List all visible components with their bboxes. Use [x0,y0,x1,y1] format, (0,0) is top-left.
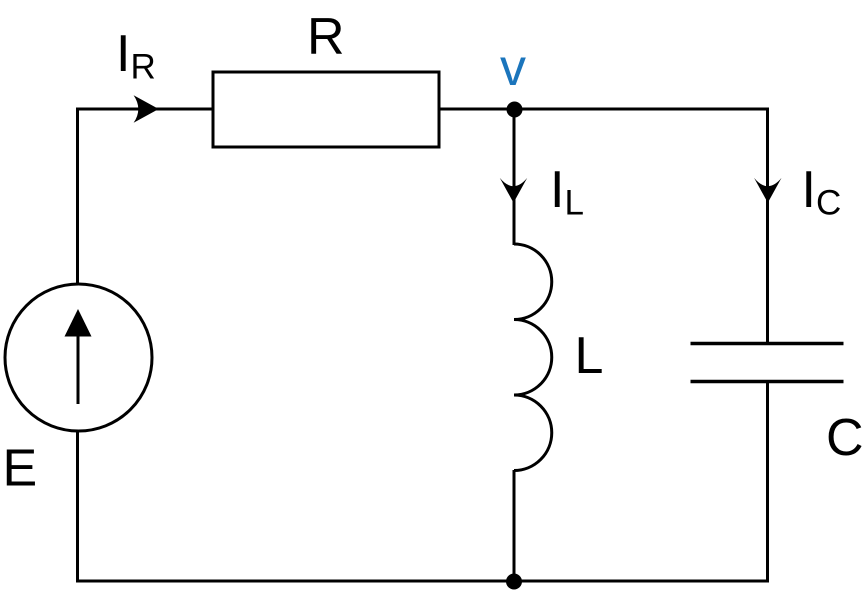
current source E circle [5,284,152,431]
resistor R body [213,72,439,147]
node V junction dot [507,102,523,118]
wire: inductor bottom to bottom rail [513,470,516,581]
svg-text:C: C [826,409,863,467]
svg-text:IL: IL [550,161,584,223]
wire: resistor right to node V and on to capacitor top [439,109,768,344]
wire: node V down to inductor top [513,109,516,245]
source arrowhead [65,309,92,337]
svg-text:L: L [575,327,604,385]
bottom junction dot [506,574,522,590]
svg-text:E: E [3,440,38,498]
svg-text:R: R [307,8,345,66]
current arrow I_C [754,178,781,203]
current arrow I_R [134,95,159,123]
wire: source bottom to bottom-left corner and bottom rail to capacitor branch [78,382,768,582]
svg-text:v: v [500,39,526,97]
wire: top-left from resistor to source top [78,109,214,285]
capacitor C top plate [691,342,844,345]
svg-text:IR: IR [116,25,156,87]
current arrow I_L [500,178,527,203]
inductor L coils [514,244,552,471]
capacitor C bottom plate [691,380,844,383]
svg-text:IC: IC [802,161,842,223]
source arrow shaft [77,334,80,404]
